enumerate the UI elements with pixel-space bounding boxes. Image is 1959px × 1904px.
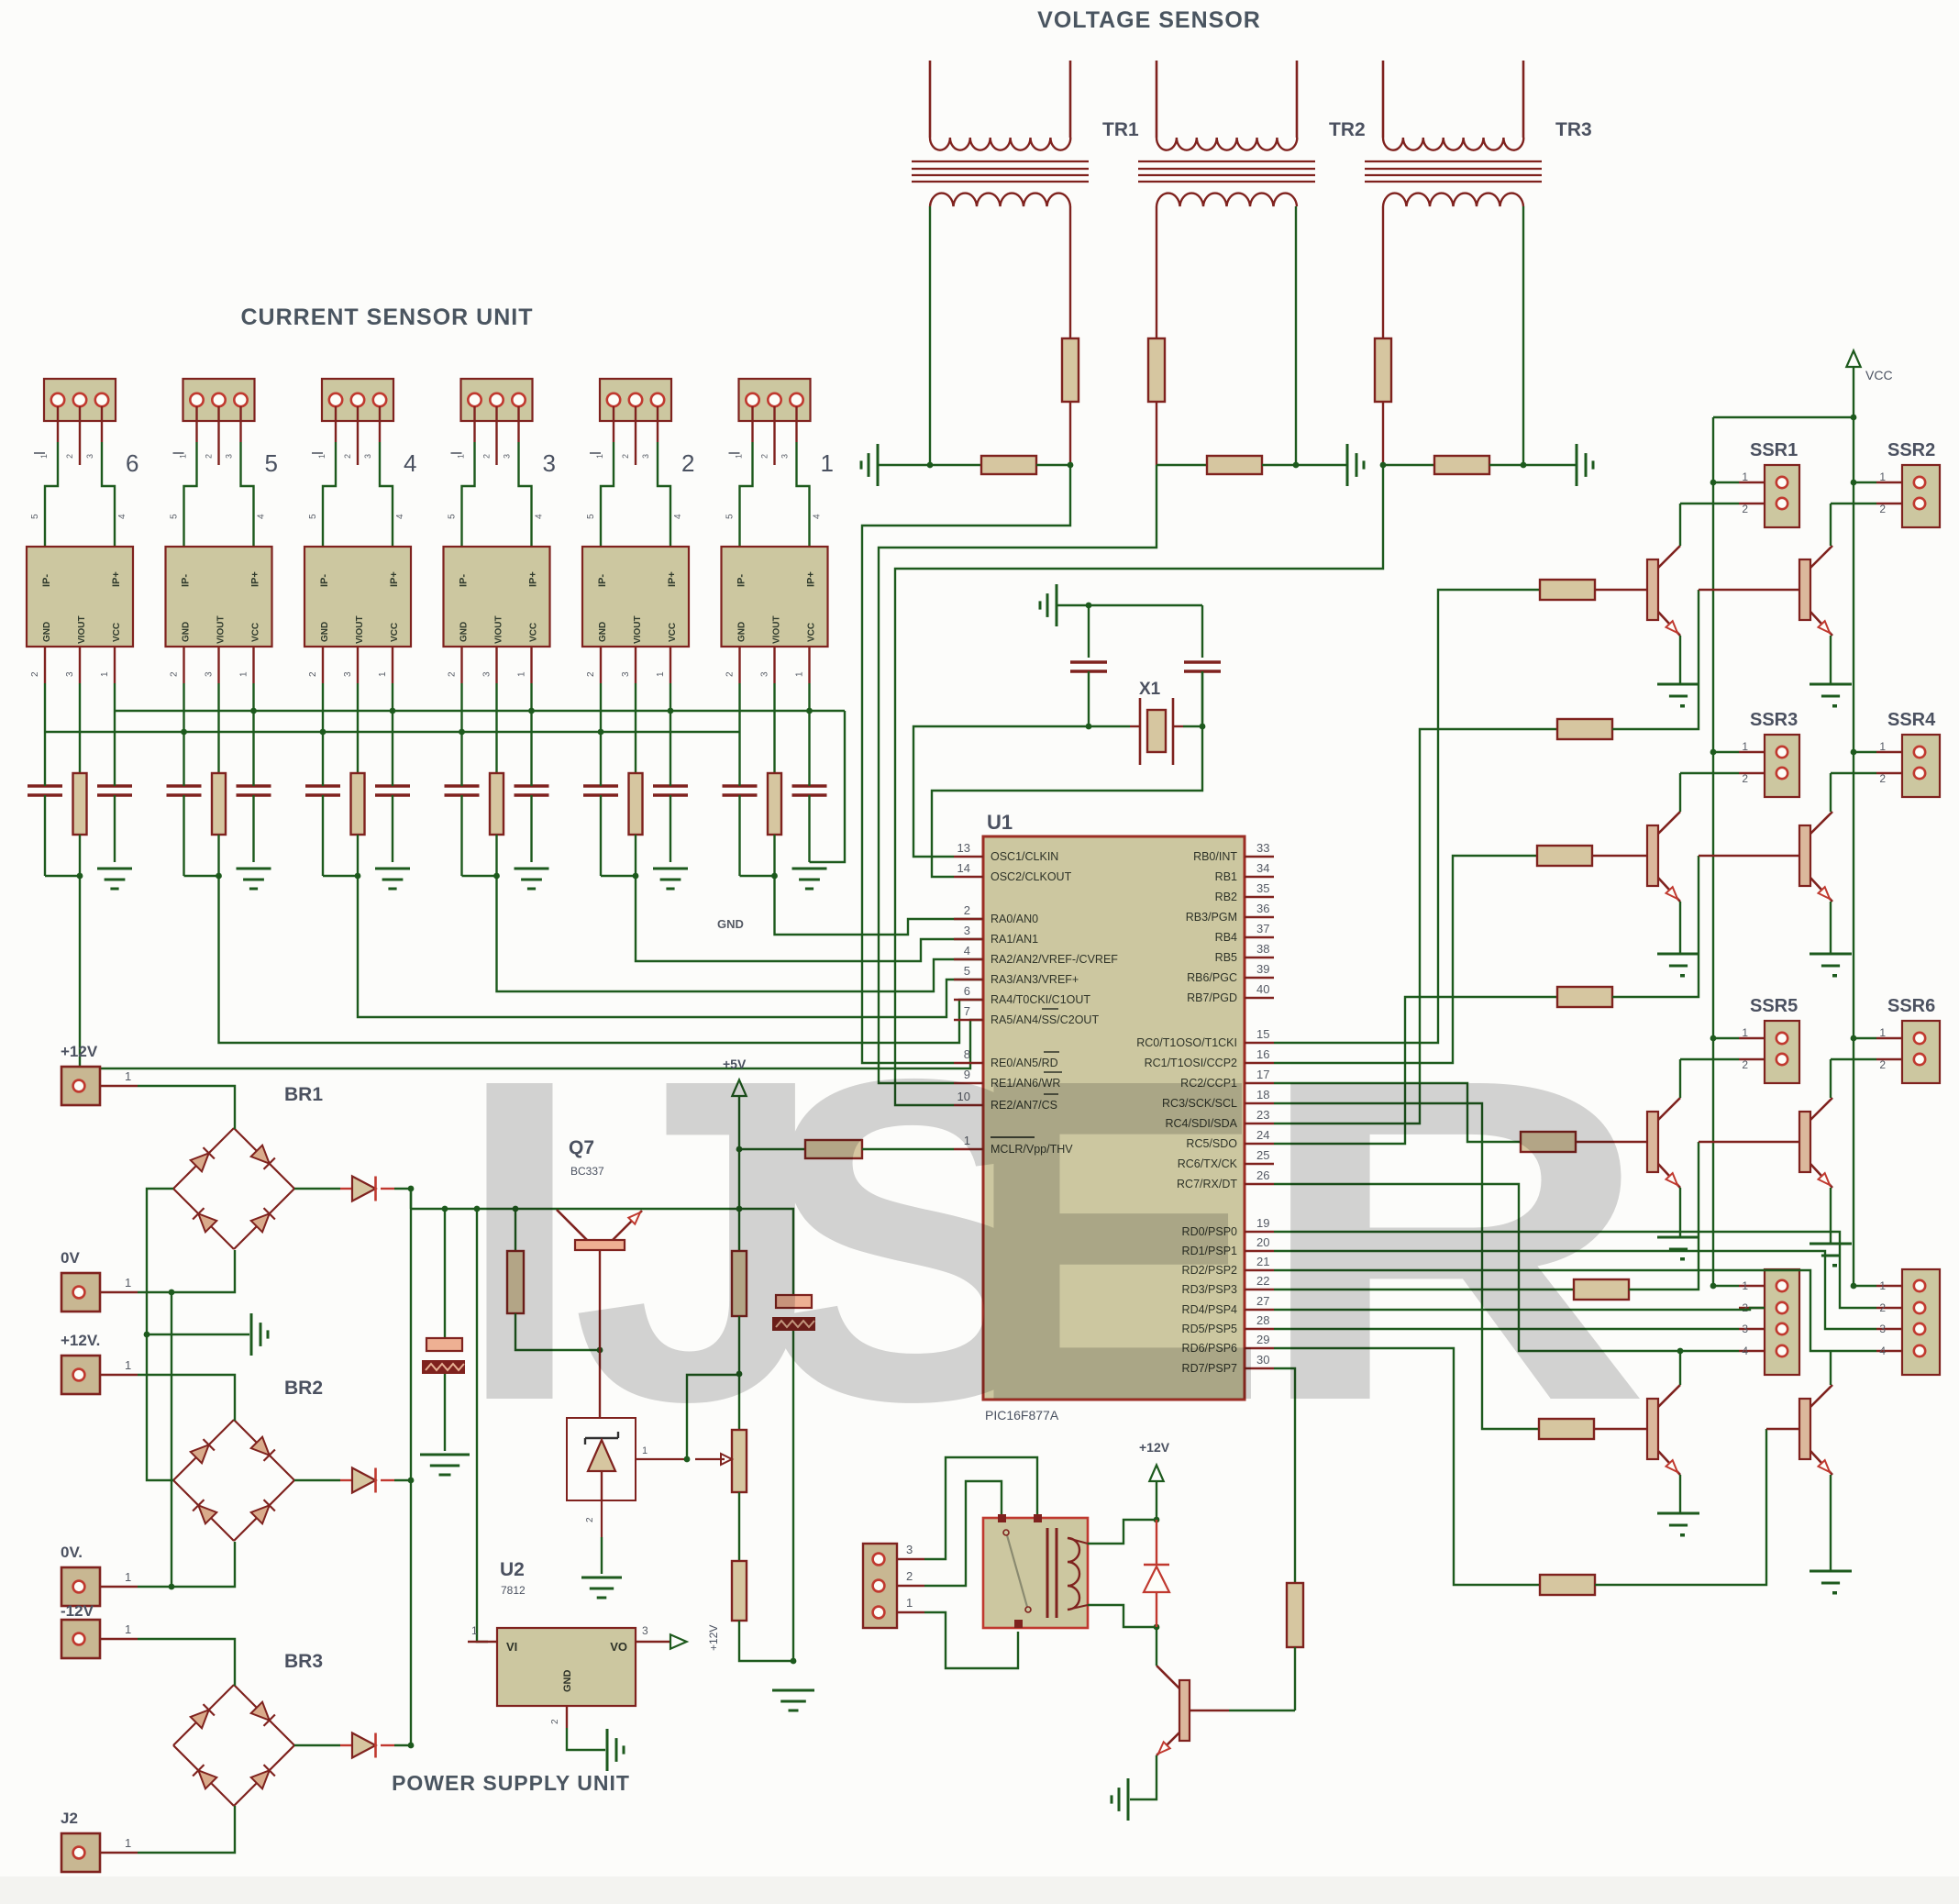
svg-text:3: 3	[621, 671, 631, 677]
svg-text:39: 39	[1256, 962, 1269, 976]
resistor R6f	[73, 773, 87, 876]
wire -12V to BR3	[138, 1639, 235, 1686]
label BR2	[284, 1378, 323, 1399]
svg-text:GND: GND	[42, 622, 52, 642]
connector SSR5	[1765, 1021, 1799, 1083]
svg-text:IP-: IP-	[459, 574, 470, 587]
svg-text:BR2: BR2	[284, 1378, 323, 1399]
current sensor U5 (ACS712)	[166, 547, 272, 647]
Q8 collector wire	[1830, 1351, 1832, 1385]
svg-text:4: 4	[395, 514, 405, 519]
current sensor U6 (ACS712)	[27, 547, 133, 647]
zener pin 1 wire	[636, 1445, 687, 1459]
wire U1 VIOUT down	[773, 683, 775, 773]
svg-text:1: 1	[457, 454, 466, 459]
SSR3 pin stubs	[1680, 740, 1765, 785]
label TR1	[1102, 119, 1139, 140]
svg-text:POWER SUPPLY UNIT: POWER SUPPLY UNIT	[392, 1771, 630, 1795]
svg-text:RB3/PGM: RB3/PGM	[1186, 911, 1237, 924]
label 5	[265, 449, 278, 477]
resistor R3f	[490, 773, 504, 876]
svg-text:-12V: -12V	[61, 1602, 94, 1620]
label 2	[681, 449, 694, 477]
svg-text:4: 4	[535, 514, 545, 519]
connector J5 pin stubs	[197, 406, 241, 465]
svg-text:0V.: 0V.	[61, 1544, 83, 1561]
wire TR2 secondary right	[1295, 206, 1297, 465]
rail SSR-left	[1712, 417, 1714, 1286]
wire +12V to BR1	[138, 1086, 235, 1129]
bus VCC corner	[810, 711, 846, 862]
wire main node	[411, 1189, 739, 1212]
capacitor C6b	[97, 711, 132, 862]
label SSR5	[1750, 996, 1798, 1016]
svg-text:3: 3	[225, 454, 234, 459]
svg-text:SSR3: SSR3	[1750, 710, 1798, 730]
svg-text:GND: GND	[737, 622, 747, 642]
Q4 collector wire	[1830, 773, 1832, 812]
capacitor C-out	[739, 1209, 815, 1661]
svg-text:GND: GND	[598, 622, 608, 642]
Q3 emitter wire	[1679, 902, 1681, 954]
wire J1 to sensor	[740, 442, 810, 547]
svg-text:+12V.: +12V.	[61, 1332, 100, 1349]
wire U4 GND to bus	[322, 683, 324, 732]
svg-text:1: 1	[795, 671, 805, 677]
svg-text:GND: GND	[717, 917, 744, 931]
resistor Rdiv2	[1207, 456, 1262, 474]
svg-text:1: 1	[125, 1836, 131, 1850]
wire divider row 3b	[1489, 464, 1577, 466]
capacitor C4a	[305, 732, 340, 876]
wire U3 VCC to bus	[530, 683, 532, 711]
svg-text:IP-: IP-	[597, 574, 608, 587]
resistor R-Q9	[1274, 1368, 1303, 1710]
svg-text:2: 2	[1742, 503, 1748, 515]
wire J2 to BR3	[138, 1806, 235, 1853]
Q6 emitter wire	[1830, 1188, 1832, 1244]
svg-text:2: 2	[482, 454, 492, 459]
svg-text:4: 4	[673, 514, 683, 519]
connector J8 (4-pin right)	[1902, 1269, 1940, 1375]
wire V3 to RE2	[895, 465, 1383, 1105]
svg-text:3: 3	[780, 454, 790, 459]
resistor RB7 + wire (Q7b base)	[1274, 1103, 1647, 1439]
svg-text:36: 36	[1256, 902, 1269, 915]
svg-text:3: 3	[642, 1624, 648, 1637]
svg-text:VCC: VCC	[251, 623, 261, 642]
J9 pin stubs	[897, 1543, 924, 1612]
sensor U4 bottom pins	[308, 647, 393, 683]
connector J6 (current sensor 6)	[44, 379, 116, 421]
wire U2 VCC to bus	[670, 683, 671, 711]
capacitor C-X1b	[1184, 605, 1221, 726]
svg-text:1: 1	[595, 454, 604, 459]
connector J3 pin stubs	[475, 406, 519, 465]
ground (divider)	[772, 1690, 814, 1710]
label SSR4	[1887, 710, 1936, 730]
svg-text:3: 3	[85, 454, 94, 459]
connector J5 (current sensor 5)	[183, 379, 255, 421]
transformer TR1	[912, 61, 1089, 206]
svg-text:3: 3	[964, 924, 970, 937]
label BR3	[284, 1651, 323, 1672]
svg-text:2: 2	[906, 1569, 913, 1583]
transistor Q6	[1799, 1098, 1832, 1188]
svg-text:TR1: TR1	[1102, 119, 1139, 140]
svg-text:2: 2	[1879, 772, 1886, 785]
resistor RB2 + wire (Q2 base)	[1274, 590, 1799, 1124]
svg-text:1: 1	[517, 671, 527, 677]
svg-text:BR1: BR1	[284, 1084, 323, 1105]
svg-text:38: 38	[1256, 942, 1269, 956]
svg-text:2: 2	[585, 1517, 595, 1522]
resistor RB6 + wire (Q6 base)	[1274, 1142, 1799, 1300]
current sensor U4 (ACS712)	[304, 547, 411, 647]
ground U2	[653, 869, 688, 889]
svg-text:VIOUT: VIOUT	[772, 615, 782, 644]
svg-text:7812: 7812	[501, 1584, 526, 1597]
wire filter join 4	[323, 873, 360, 880]
ground (voltage divider 2)	[1347, 444, 1364, 486]
svg-text:IP+: IP+	[111, 571, 122, 587]
transformer TR3	[1365, 61, 1542, 206]
svg-text:VIOUT: VIOUT	[216, 615, 227, 644]
svg-text:I: I	[456, 983, 583, 1496]
svg-text:3: 3	[343, 671, 353, 677]
svg-text:2: 2	[964, 903, 970, 917]
terminal -12V	[61, 1602, 138, 1658]
wire RC7 to J7.4	[1274, 1184, 1739, 1351]
ground (voltage divider 3)	[1577, 444, 1593, 486]
svg-text:2: 2	[343, 454, 352, 459]
svg-text:5: 5	[30, 514, 40, 519]
bus GND (current sensors)	[45, 729, 740, 736]
node TR2-right	[1293, 462, 1300, 469]
ground (psu mid)	[147, 1313, 268, 1356]
transistor Q4	[1799, 812, 1832, 902]
svg-text:2: 2	[725, 671, 736, 677]
wire VIOUT1 to U1	[775, 876, 984, 935]
svg-text:1: 1	[179, 454, 188, 459]
wire J4 to sensor	[323, 442, 393, 547]
wire filter join 1	[740, 873, 778, 880]
wire J2 to sensor	[601, 442, 670, 547]
svg-text:IP+: IP+	[250, 571, 261, 587]
ground Q8	[1810, 1571, 1852, 1595]
svg-text:1: 1	[471, 1624, 478, 1637]
rail VCC	[1853, 417, 1854, 1286]
current sensor U1 (ACS712)	[722, 547, 828, 647]
wire relay coil top	[1088, 1517, 1159, 1544]
svg-text:2: 2	[1742, 1058, 1748, 1071]
title POWER SUPPLY UNIT	[392, 1771, 630, 1795]
node TR3-right	[1521, 462, 1527, 469]
label TR2	[1329, 119, 1366, 140]
wire divider row 2	[1157, 464, 1207, 466]
SSR4 pin stubs	[1831, 740, 1902, 785]
svg-text:VCC: VCC	[390, 623, 400, 642]
label 4	[404, 449, 416, 477]
capacitor C1a	[723, 732, 758, 876]
svg-text:RA1/AN1: RA1/AN1	[991, 933, 1038, 946]
svg-text:1: 1	[125, 1276, 131, 1290]
svg-text:+12V: +12V	[61, 1043, 98, 1060]
svg-text:3: 3	[1879, 1323, 1886, 1335]
transistor Q5	[1647, 1098, 1680, 1188]
wire RD5 to J7.3	[1274, 1328, 1739, 1330]
wire U4 VCC to bus	[392, 683, 393, 711]
ground Q6	[1810, 1244, 1852, 1267]
svg-text:IP-: IP-	[736, 574, 747, 587]
svg-text:1: 1	[1879, 1279, 1886, 1292]
svg-text:2: 2	[1879, 1058, 1886, 1071]
svg-text:33: 33	[1256, 841, 1269, 855]
svg-text:34: 34	[1256, 861, 1269, 875]
transistor Q7	[1647, 1385, 1680, 1475]
svg-text:2: 2	[30, 671, 40, 677]
capacitor C5b	[237, 711, 271, 862]
svg-text:5: 5	[265, 449, 278, 477]
svg-text:2: 2	[1742, 772, 1748, 785]
svg-text:RB6/PGC: RB6/PGC	[1187, 971, 1237, 984]
svg-text:5: 5	[586, 514, 596, 519]
wire BR1 left down	[144, 1189, 173, 1480]
svg-text:4: 4	[117, 514, 127, 519]
resistor Rdiv1	[981, 456, 1036, 474]
resistor RB8 + wire (Q8 base)	[1274, 1348, 1799, 1595]
wire filter join 3	[462, 873, 500, 880]
connector J7 (4-pin left)	[1765, 1269, 1799, 1375]
wire TR1 secondary left	[929, 206, 931, 465]
svg-text:3: 3	[760, 671, 770, 677]
wire TR2 secondary left	[1156, 206, 1157, 465]
connector J1 pin stubs	[753, 406, 797, 465]
svg-text:1: 1	[1879, 470, 1886, 483]
svg-text:U2: U2	[500, 1559, 525, 1580]
svg-text:OSC2/CLKOUT: OSC2/CLKOUT	[991, 870, 1072, 883]
resistor R-TR2	[1148, 338, 1165, 402]
wire Q7 base	[599, 1250, 601, 1418]
wire U1 GND to bus	[738, 683, 740, 732]
ground Q3	[1657, 954, 1699, 978]
svg-text:IP+: IP+	[528, 571, 539, 587]
wire pot wiper	[684, 1375, 739, 1462]
svg-text:4: 4	[813, 514, 823, 519]
U2 VI pin	[468, 1624, 497, 1642]
svg-text:1: 1	[656, 671, 666, 677]
resistor R4f	[351, 773, 365, 876]
U2 VO pin	[636, 1624, 720, 1651]
sensor U2 top pin numbers	[586, 514, 683, 519]
ground U6	[97, 869, 132, 889]
node TR1-left	[927, 462, 934, 469]
svg-text:VCC: VCC	[529, 623, 539, 642]
terminal 0V	[61, 1249, 138, 1312]
label TR3	[1555, 119, 1592, 140]
svg-text:2: 2	[586, 671, 596, 677]
svg-text:2: 2	[550, 1719, 560, 1724]
bridge rectifier BR3	[173, 1685, 294, 1806]
power VCC arrow	[1846, 350, 1892, 417]
wire divider row 1b	[1036, 464, 1070, 466]
svg-text:TR2: TR2	[1329, 119, 1366, 140]
diode D1	[294, 1177, 411, 1201]
SSR5 pin stubs	[1680, 1026, 1765, 1071]
connector J1 (current sensor 1)	[739, 379, 811, 421]
wire RD2 to J8.4	[1274, 1270, 1876, 1351]
svg-text:3: 3	[503, 454, 512, 459]
terminal +12V	[61, 1043, 138, 1105]
ground Q7	[1657, 1513, 1699, 1537]
svg-text:OSC1/CLKIN: OSC1/CLKIN	[991, 850, 1058, 863]
resistor R1f	[768, 773, 781, 876]
resistor R5f	[212, 773, 226, 876]
connector SSR1	[1765, 465, 1799, 527]
capacitor C3a	[445, 732, 480, 876]
label 6	[126, 449, 138, 477]
U1 right pins	[1136, 841, 1274, 1375]
svg-text:2: 2	[308, 671, 318, 677]
sensor U4 top pin numbers	[308, 514, 405, 519]
wire RD4 to J7.2	[1274, 1308, 1765, 1310]
transistor Q1	[1647, 546, 1680, 636]
wire VCC top	[1713, 415, 1856, 421]
wire divider row 3	[1383, 464, 1434, 466]
terminal 0V.	[61, 1544, 138, 1606]
wire filter join 6	[45, 873, 83, 880]
label SSR3	[1750, 710, 1798, 730]
wire TR1 secondary right	[1069, 206, 1071, 465]
capacitor C-filter	[422, 1209, 465, 1451]
wire 0V to BR1	[138, 1250, 235, 1295]
wire OSC2	[932, 671, 1202, 877]
svg-text:J2: J2	[61, 1810, 78, 1827]
sensor U1 top pin numbers	[725, 514, 823, 519]
svg-text:1: 1	[239, 671, 249, 677]
svg-text:2: 2	[681, 449, 694, 477]
label SSR1	[1750, 440, 1798, 460]
J7 pin stubs	[1710, 1279, 1765, 1357]
svg-text:VCC: VCC	[112, 623, 122, 642]
wire J9.1 to relay	[924, 1612, 1018, 1668]
svg-text:VOLTAGE SENSOR: VOLTAGE SENSOR	[1037, 7, 1261, 33]
wire J9.2 to relay	[924, 1481, 1002, 1586]
bridge rectifier BR1	[173, 1128, 294, 1249]
wire V1 to RE0	[862, 465, 1070, 1063]
capacitor C5a	[167, 732, 202, 876]
svg-text:TR3: TR3	[1555, 119, 1592, 140]
Q1 collector wire	[1679, 504, 1681, 546]
svg-text:3: 3	[205, 671, 215, 677]
wire +12V. to BR2	[138, 1375, 235, 1421]
svg-text:VCC: VCC	[807, 623, 817, 642]
connector J4 (current sensor 4)	[322, 379, 393, 421]
svg-text:E: E	[963, 983, 1269, 1496]
svg-text:2: 2	[448, 671, 458, 677]
op-amp U1 body (PIC16F877A)	[983, 836, 1245, 1400]
capacitor C1b	[792, 711, 827, 862]
power +5V arrow	[723, 1057, 747, 1096]
svg-text:VCC: VCC	[668, 623, 678, 642]
transistor Q7	[557, 1210, 642, 1250]
wire Q9 base	[1190, 1710, 1295, 1711]
svg-text:IP-: IP-	[41, 574, 52, 587]
svg-text:1: 1	[1742, 1279, 1748, 1292]
node osc2	[1200, 724, 1206, 730]
svg-text:2: 2	[621, 454, 630, 459]
svg-text:VIOUT: VIOUT	[633, 615, 643, 644]
svg-text:1: 1	[125, 1358, 131, 1372]
wire Q9 collector	[1156, 1627, 1157, 1666]
svg-text:SSR2: SSR2	[1887, 440, 1935, 460]
resistor R4	[732, 1251, 747, 1316]
Q7 emitter wire	[1679, 1475, 1681, 1513]
wire to U2 VI	[477, 1209, 488, 1642]
svg-text:3: 3	[482, 671, 493, 677]
svg-text:RA2/AN2/VREF-/CVREF: RA2/AN2/VREF-/CVREF	[991, 953, 1118, 966]
svg-text:3: 3	[1742, 1323, 1748, 1335]
svg-text:5: 5	[448, 514, 458, 519]
resistor Rdiv3	[1434, 456, 1489, 474]
wire 0V common	[171, 1292, 172, 1587]
resistor RB1 + wire (Q1 base)	[1274, 580, 1647, 1043]
resistor R5	[732, 1492, 747, 1621]
svg-text:4: 4	[1742, 1345, 1748, 1357]
svg-text:1: 1	[125, 1570, 131, 1584]
svg-text:1: 1	[100, 671, 110, 677]
wire J3 to sensor	[462, 442, 532, 547]
svg-text:IP+: IP+	[806, 571, 817, 587]
svg-text:1: 1	[125, 1622, 131, 1636]
label SSR2	[1887, 440, 1935, 460]
resistor R-TR3	[1375, 338, 1391, 402]
wire filter join 5	[184, 873, 222, 880]
Q2 emitter wire	[1830, 636, 1832, 684]
svg-text:RB1: RB1	[1215, 870, 1237, 883]
svg-text:SSR1: SSR1	[1750, 440, 1798, 460]
current sensor U2 (ACS712)	[582, 547, 689, 647]
wire relay coil bottom	[1088, 1605, 1159, 1630]
svg-text:1: 1	[821, 449, 834, 477]
ground (voltage divider 1)	[861, 444, 930, 486]
svg-text:37: 37	[1256, 922, 1269, 935]
svg-text:+12V: +12V	[707, 1625, 720, 1651]
wire J5 to sensor	[184, 442, 254, 547]
SSR2 pin stubs	[1831, 470, 1902, 515]
svg-text:RB0/INT: RB0/INT	[1193, 850, 1237, 863]
label X1	[1139, 680, 1161, 699]
svg-text:2: 2	[170, 671, 180, 677]
svg-text:4: 4	[1879, 1345, 1886, 1357]
zener pin 2 wire	[585, 1500, 602, 1574]
svg-text:1: 1	[1742, 1026, 1748, 1039]
svg-text:RB2: RB2	[1215, 891, 1237, 903]
Q7 collector wire	[1677, 1348, 1684, 1385]
connector SSR4	[1902, 735, 1940, 797]
svg-text:GND: GND	[182, 622, 192, 642]
svg-text:4: 4	[404, 449, 416, 477]
ground U5	[237, 869, 271, 889]
terminal J2	[61, 1810, 138, 1872]
svg-text:R: R	[1254, 984, 1651, 1497]
svg-text:1: 1	[1879, 740, 1886, 753]
svg-text:1: 1	[378, 671, 388, 677]
sensor U5 top pin numbers	[170, 514, 267, 519]
label 1	[821, 449, 834, 477]
wire crystal top	[1089, 604, 1202, 606]
connector J3 (current sensor 3)	[461, 379, 533, 421]
